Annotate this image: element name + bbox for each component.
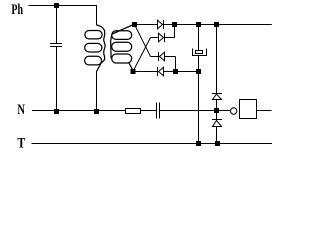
node junction bottom rail / D3 xyxy=(173,69,178,74)
wire bridge diagonal A xyxy=(135,25,151,57)
wire DC bottom rail xyxy=(133,71,199,73)
node junction top rail / clamp column xyxy=(214,22,219,27)
diode D2 xyxy=(159,33,164,42)
node junction N/C1 xyxy=(54,109,59,114)
capacitor C2 cup electrode xyxy=(193,49,207,56)
node junction N rail / clamp column xyxy=(214,108,219,113)
transformer T1 primary winding xyxy=(85,25,106,72)
wire C1 top lead xyxy=(56,6,58,44)
node junction top rail / D2 xyxy=(172,22,177,27)
wire C2 column top xyxy=(198,25,200,51)
diode D1 xyxy=(158,20,163,29)
capacitor C2 electrolytic plate xyxy=(196,51,203,54)
transformer T1 secondary winding xyxy=(111,25,134,72)
diode D3 xyxy=(158,52,160,61)
wire clamp column upper xyxy=(216,25,218,94)
svg-text:N: N xyxy=(17,102,25,118)
node junction Ph/C1 xyxy=(54,3,59,8)
node junction bottom rail / C2 column xyxy=(196,69,201,74)
wire Ph rail xyxy=(29,6,97,26)
wire row2 xyxy=(151,37,175,39)
wire primary to N xyxy=(96,72,98,111)
wire N rail left xyxy=(32,110,126,112)
capacitor C3 xyxy=(156,103,158,119)
node junction N/primary xyxy=(94,109,99,114)
capacitor C1 xyxy=(50,43,62,45)
resistor R1 xyxy=(126,109,141,114)
wire riser D2 to top rail xyxy=(174,25,176,38)
diode D6 xyxy=(212,119,222,121)
wire C2 column bottom xyxy=(198,56,200,144)
node junction top rail / C2 column xyxy=(196,22,201,27)
gate U1 body xyxy=(240,100,257,119)
diode D4 xyxy=(157,67,159,76)
wire clamp column lower xyxy=(216,127,218,144)
wire clamp column middle xyxy=(216,111,218,120)
node junction secondary bottom xyxy=(131,69,136,74)
wire N rail right xyxy=(160,110,231,112)
svg-text:Ph: Ph xyxy=(11,2,23,18)
wire riser D3 to bottom rail xyxy=(175,57,177,72)
wire U1 output xyxy=(257,110,272,112)
wire bridge diagonal B xyxy=(133,38,151,72)
svg-text:T: T xyxy=(17,135,25,151)
gate U1 input bubble xyxy=(231,108,237,114)
wire DC top rail xyxy=(135,24,272,26)
node junction T rail / clamp column xyxy=(215,141,220,146)
wire row3 xyxy=(151,56,176,58)
node junction secondary top xyxy=(132,22,137,27)
node junction T rail / C2 column xyxy=(196,141,201,146)
wire C1 bottom lead xyxy=(56,47,58,111)
diode D5 xyxy=(212,93,222,95)
wire N rail middle xyxy=(141,110,157,112)
wire T rail xyxy=(32,143,273,145)
